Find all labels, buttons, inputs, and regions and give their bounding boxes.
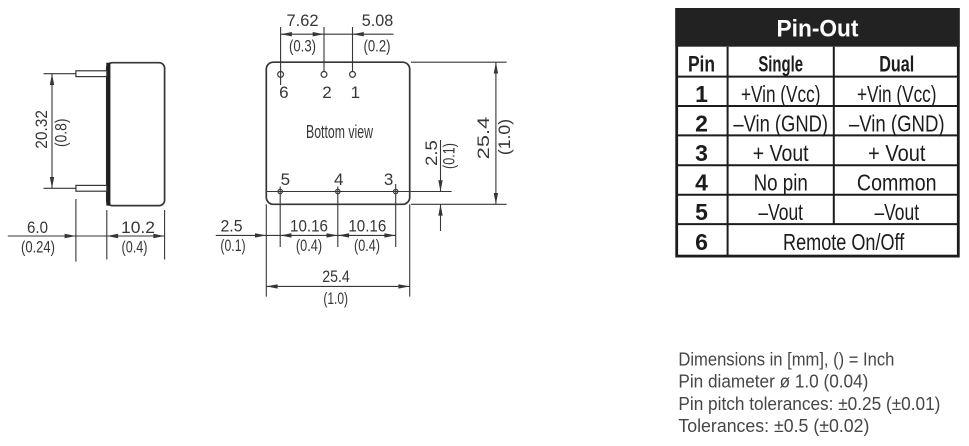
svg-text:4: 4	[695, 170, 708, 196]
svg-text:10.16: 10.16	[290, 217, 328, 236]
svg-text:–Vin (GND): –Vin (GND)	[849, 110, 945, 136]
svg-text:(0.1): (0.1)	[440, 143, 459, 169]
svg-text:(0.4): (0.4)	[122, 238, 148, 257]
svg-text:Pin: Pin	[688, 52, 715, 77]
svg-text:–Vin (GND): –Vin (GND)	[733, 110, 828, 136]
svg-text:Tolerances: ±0.5 (±0.02): Tolerances: ±0.5 (±0.02)	[678, 415, 869, 436]
svg-text:6: 6	[695, 229, 708, 255]
svg-text:+Vin (Vcc): +Vin (Vcc)	[741, 81, 821, 107]
svg-text:20.32: 20.32	[32, 110, 51, 149]
svg-text:2.5: 2.5	[221, 216, 243, 235]
svg-text:2: 2	[695, 110, 708, 136]
svg-text:25.4: 25.4	[322, 267, 350, 286]
svg-text:2.5: 2.5	[422, 140, 441, 166]
svg-text:Pin diameter ø 1.0 (0.04): Pin diameter ø 1.0 (0.04)	[678, 371, 868, 392]
svg-text:Common: Common	[857, 170, 937, 196]
svg-text:5.08: 5.08	[362, 11, 394, 30]
svg-text:(1.0): (1.0)	[495, 119, 514, 155]
svg-text:Pin pitch tolerances: ±0.25 (±: Pin pitch tolerances: ±0.25 (±0.01)	[678, 393, 940, 414]
svg-text:+ Vout: + Vout	[753, 140, 809, 166]
svg-text:+ Vout: + Vout	[868, 140, 926, 166]
svg-text:4: 4	[334, 170, 343, 189]
svg-text:(0.1): (0.1)	[220, 236, 245, 255]
svg-text:(0.3): (0.3)	[289, 37, 316, 56]
svg-text:+Vin (Vcc): +Vin (Vcc)	[857, 81, 937, 107]
svg-text:Pin-Out: Pin-Out	[777, 16, 859, 43]
svg-text:Dimensions in [mm], () = Inch: Dimensions in [mm], () = Inch	[678, 348, 894, 369]
svg-text:1: 1	[351, 83, 360, 102]
svg-text:–Vout: –Vout	[874, 199, 919, 225]
svg-text:(0.24): (0.24)	[21, 238, 55, 257]
svg-text:Bottom view: Bottom view	[306, 122, 374, 142]
svg-text:(0.8): (0.8)	[52, 119, 71, 148]
svg-text:1: 1	[695, 81, 708, 107]
svg-text:(0.4): (0.4)	[354, 236, 380, 255]
svg-text:6.0: 6.0	[27, 218, 48, 237]
svg-text:Single: Single	[758, 52, 803, 77]
svg-text:(1.0): (1.0)	[323, 289, 348, 308]
svg-text:2: 2	[322, 83, 331, 102]
svg-text:5: 5	[281, 170, 290, 189]
svg-text:10.2: 10.2	[121, 218, 155, 237]
svg-text:Remote On/Off: Remote On/Off	[783, 229, 905, 255]
svg-text:10.16: 10.16	[348, 217, 386, 236]
svg-text:6: 6	[279, 83, 288, 102]
svg-text:3: 3	[695, 140, 708, 166]
svg-text:Dual: Dual	[879, 52, 914, 77]
svg-text:–Vout: –Vout	[758, 199, 803, 225]
svg-text:(0.2): (0.2)	[364, 37, 391, 56]
svg-text:5: 5	[695, 199, 708, 225]
svg-text:7.62: 7.62	[287, 11, 319, 30]
svg-text:3: 3	[384, 170, 393, 189]
svg-text:25.4: 25.4	[474, 117, 493, 160]
svg-text:(0.4): (0.4)	[296, 236, 322, 255]
svg-text:No pin: No pin	[754, 170, 808, 196]
